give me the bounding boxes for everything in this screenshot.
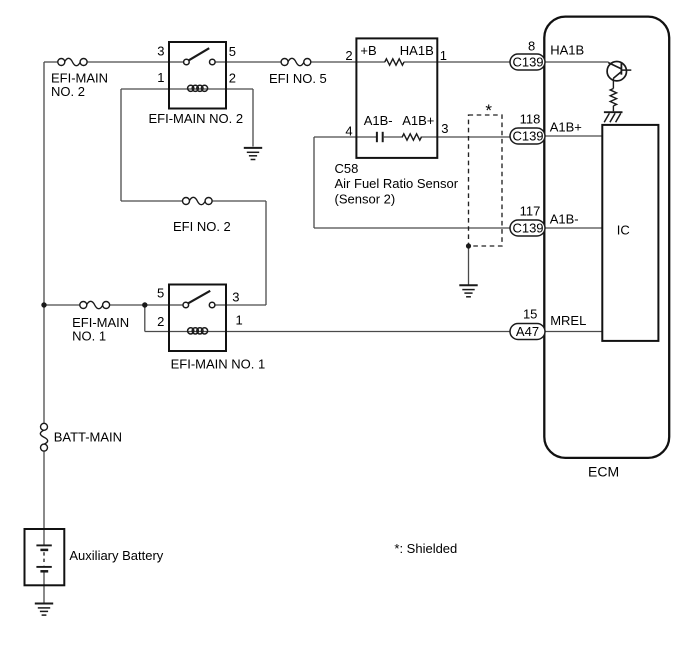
- svg-text:Auxiliary Battery: Auxiliary Battery: [69, 548, 163, 563]
- svg-text:A47: A47: [516, 324, 539, 339]
- svg-text:NO. 1: NO. 1: [72, 329, 106, 344]
- svg-text:HA1B: HA1B: [550, 43, 584, 58]
- svg-text:3: 3: [157, 44, 164, 59]
- svg-text:C139: C139: [512, 221, 543, 236]
- svg-text:+B: +B: [360, 43, 376, 58]
- svg-text:(Sensor 2): (Sensor 2): [335, 191, 396, 206]
- svg-text:118: 118: [520, 111, 541, 126]
- svg-text:A1B+: A1B+: [402, 113, 434, 128]
- svg-text:3: 3: [441, 121, 448, 136]
- svg-text:*: *: [485, 101, 492, 120]
- svg-text:1: 1: [440, 48, 447, 63]
- svg-text:A1B-: A1B-: [364, 113, 393, 128]
- svg-text:1: 1: [236, 313, 243, 328]
- svg-text:MREL: MREL: [550, 313, 586, 328]
- svg-text:15: 15: [523, 307, 537, 322]
- svg-text:3: 3: [232, 289, 239, 304]
- svg-text:ECM: ECM: [588, 464, 619, 480]
- svg-text:8: 8: [528, 38, 535, 53]
- svg-text:5: 5: [157, 285, 164, 300]
- svg-text:BATT-MAIN: BATT-MAIN: [54, 430, 122, 445]
- svg-text:IC: IC: [617, 223, 630, 238]
- svg-text:C139: C139: [512, 55, 543, 70]
- svg-text:2: 2: [229, 71, 236, 86]
- svg-text:5: 5: [229, 44, 236, 59]
- svg-text:C58: C58: [335, 161, 359, 176]
- svg-text:EFI-MAIN NO. 1: EFI-MAIN NO. 1: [171, 356, 266, 371]
- svg-text:EFI NO. 5: EFI NO. 5: [269, 71, 327, 86]
- svg-text:NO. 2: NO. 2: [51, 84, 85, 99]
- svg-text:EFI-MAIN NO. 2: EFI-MAIN NO. 2: [149, 111, 244, 126]
- svg-text:4: 4: [345, 123, 352, 138]
- svg-text:EFI NO. 2: EFI NO. 2: [173, 219, 231, 234]
- svg-text:*: Shielded: *: Shielded: [394, 541, 457, 556]
- svg-text:117: 117: [520, 203, 541, 218]
- svg-text:2: 2: [345, 48, 352, 63]
- svg-text:A1B+: A1B+: [550, 120, 582, 135]
- svg-text:Air Fuel Ratio Sensor: Air Fuel Ratio Sensor: [335, 176, 459, 191]
- svg-text:A1B-: A1B-: [550, 211, 579, 226]
- svg-text:HA1B: HA1B: [400, 43, 434, 58]
- svg-text:2: 2: [157, 314, 164, 329]
- svg-text:1: 1: [157, 70, 164, 85]
- svg-text:C139: C139: [512, 129, 543, 144]
